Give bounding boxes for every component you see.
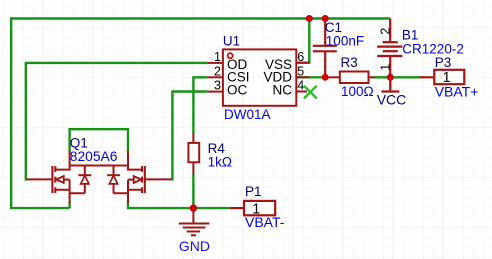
svg-text:6: 6 bbox=[297, 50, 304, 64]
Q1 right gate pin bbox=[145, 178, 172, 180]
wire top rail B- net bbox=[11, 17, 390, 19]
junction top rail at C1 bbox=[322, 15, 329, 22]
junction VDD node bbox=[322, 74, 329, 81]
svg-text:P3: P3 bbox=[435, 55, 452, 70]
svg-text:1: 1 bbox=[379, 64, 393, 71]
wire drain-drain loop over Q1 bbox=[70, 129, 128, 151]
wire VSS pin6 to top rail bbox=[297, 17, 309, 62]
pin 6 VSS stub bbox=[297, 62, 310, 64]
Q1 left gate pin bbox=[27, 178, 53, 180]
svg-text:8205A6: 8205A6 bbox=[70, 149, 118, 164]
pin 5 VDD stub bbox=[297, 76, 310, 78]
wire bottom left rail to Q1 source bbox=[10, 202, 70, 208]
ground symbol bbox=[179, 208, 210, 235]
wire VDD pin5 to C1/R3 junction bbox=[297, 76, 325, 78]
connector P1 bbox=[230, 201, 275, 215]
pin 1 OD stub bbox=[208, 62, 223, 64]
Q1 left drain stub and pin bbox=[55, 151, 69, 170]
connector P3 bbox=[419, 70, 464, 84]
svg-text:4: 4 bbox=[297, 79, 304, 93]
wire R4 bottom to GND junction bbox=[192, 174, 194, 208]
wire R3 right to VCC junction bbox=[374, 76, 390, 78]
svg-text:R3: R3 bbox=[341, 55, 358, 70]
Q1 common drain bus bbox=[70, 165, 128, 167]
svg-text:CR1220-2: CR1220-2 bbox=[402, 42, 464, 57]
Q1 left mosfet channel segments bbox=[54, 166, 56, 193]
resistor R4 bbox=[188, 133, 199, 174]
IC U1 DW01A body bbox=[223, 49, 296, 105]
wire VCC junction to P3 bbox=[390, 76, 419, 78]
wire OC pin3 to right gate bbox=[171, 92, 208, 180]
svg-text:VCC: VCC bbox=[377, 92, 407, 108]
junction GND node bbox=[190, 204, 197, 211]
Q1 left source stub and pin bbox=[55, 180, 69, 204]
junction top rail at pin6 bbox=[306, 15, 313, 22]
power VCC symbol bbox=[381, 77, 399, 91]
junction VCC node bbox=[387, 74, 394, 81]
wire OD pin1 to left gate bbox=[26, 63, 208, 179]
svg-text:P1: P1 bbox=[245, 184, 262, 199]
Q1 right mosfet channel segments bbox=[141, 166, 143, 193]
svg-text:2: 2 bbox=[379, 28, 393, 35]
Q1 right bulk arrow bbox=[128, 176, 141, 183]
pin 1 marker circle bbox=[228, 53, 233, 58]
wire left vertical B- down bbox=[10, 17, 12, 208]
svg-text:NC: NC bbox=[273, 83, 293, 98]
pin 4 NC stub bbox=[297, 91, 308, 93]
capacitor C1 bbox=[313, 19, 337, 78]
svg-text:DW01A: DW01A bbox=[224, 107, 271, 122]
no-connect X on pin 4 bbox=[304, 86, 317, 99]
pin 2 CSI stub bbox=[208, 76, 223, 78]
svg-text:1: 1 bbox=[214, 50, 221, 64]
svg-text:VBAT-: VBAT- bbox=[245, 214, 285, 230]
Q1 right source stub and pin bbox=[128, 180, 142, 204]
U1 pin names bbox=[227, 57, 292, 98]
Q1 left body diode bbox=[70, 166, 92, 194]
pin 3 OC stub bbox=[208, 91, 223, 93]
battery B1 CR1220-2 bbox=[377, 19, 402, 78]
Q1 left bulk arrow bbox=[56, 176, 69, 183]
svg-text:GND: GND bbox=[179, 238, 210, 254]
wire bottom right rail Q1 source to P1 bbox=[128, 202, 230, 208]
svg-text:5: 5 bbox=[297, 64, 304, 78]
U1 pin numbers bbox=[214, 50, 304, 93]
wire CSI pin2 to R4 bbox=[193, 77, 207, 133]
svg-text:U1: U1 bbox=[223, 33, 240, 48]
Q1 right drain stub and pin bbox=[128, 151, 142, 170]
svg-text:B1: B1 bbox=[402, 27, 419, 42]
svg-text:100nF: 100nF bbox=[326, 34, 364, 49]
resistor R3 bbox=[325, 72, 374, 84]
svg-text:VBAT+: VBAT+ bbox=[435, 83, 479, 99]
svg-text:3: 3 bbox=[214, 79, 221, 93]
svg-text:OC: OC bbox=[227, 83, 248, 98]
Q1 right mosfet gate bar bbox=[144, 166, 146, 193]
svg-text:1kΩ: 1kΩ bbox=[208, 154, 232, 169]
Q1 right body diode bbox=[107, 166, 128, 194]
svg-text:100Ω: 100Ω bbox=[341, 84, 374, 99]
Q1 left mosfet gate bar bbox=[51, 166, 53, 193]
svg-text:2: 2 bbox=[214, 64, 221, 78]
